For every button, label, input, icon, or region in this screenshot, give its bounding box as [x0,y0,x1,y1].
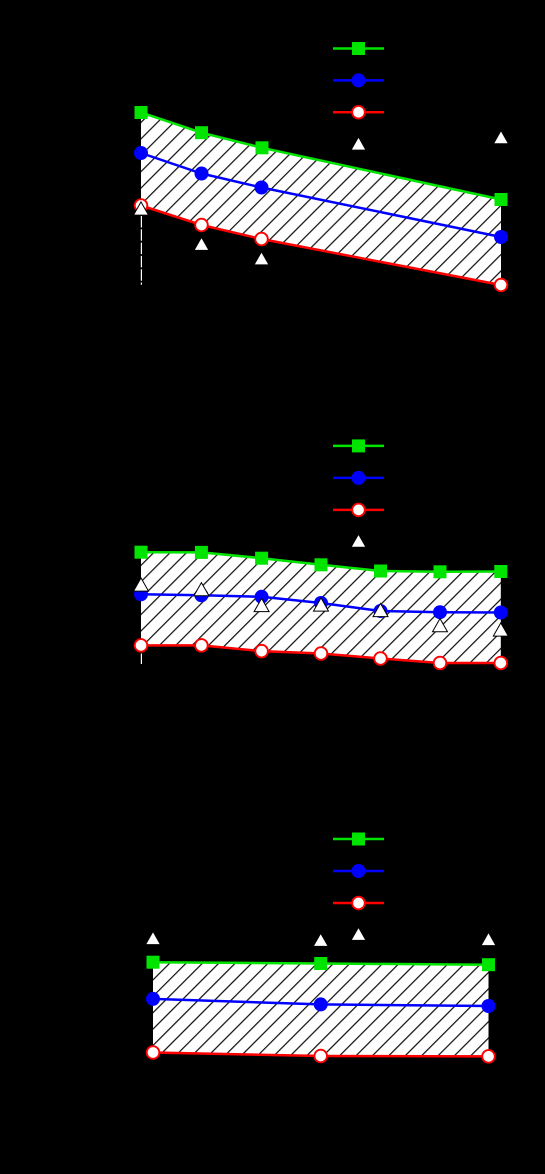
chart 1 blue circle markers [134,146,508,244]
chart 3 legend entry triangle [351,927,366,940]
chart 3 legend entry red [333,897,384,910]
chart 3 blue line [153,999,489,1006]
chart 1 legend entry green [333,42,384,55]
chart 1 white triangle markers [134,131,509,265]
chart 3 blue circle markers [146,992,496,1013]
chart 1 hatched band [141,113,501,286]
chart 1 legend entry triangle [351,137,366,150]
chart 2 hatched band [141,552,501,663]
chart 3 red open circle markers [147,1046,495,1063]
chart 2 legend entry blue [333,471,384,485]
chart 3 red line [153,1053,489,1057]
chart 3 white triangle markers [146,931,497,946]
chart 2 blue line [141,594,501,612]
chart 2 legend entry triangle [351,534,366,547]
chart 2 blue circle markers [134,587,508,619]
chart 1 green square markers [135,106,508,206]
chart 2 red line [141,645,501,663]
chart 2 green square markers [135,546,508,579]
chart 3 hatched band [153,962,489,1056]
chart 3 legend entry blue [333,864,384,878]
chart 1 white dashed lower-limit line [140,216,142,285]
chart 1 blue line [141,153,501,237]
chart 1 green line [141,112,501,199]
chart 2 green line [141,552,501,572]
chart 1 red open circle markers [135,199,508,291]
chart 1 legend entry red [333,106,384,119]
chart 1 red line [141,206,501,286]
chart 2 short white line under first red point [140,654,142,665]
chart 3 green square markers [147,956,496,972]
chart 2 red open circle markers [135,639,507,669]
chart 2 legend entry green [333,439,384,452]
chart 2 open triangle markers [134,578,509,636]
chart 2 legend entry red [333,504,384,517]
chart 1 legend entry blue [333,73,384,87]
chart 3 green line [153,962,489,965]
chart 3 legend entry green [333,833,384,846]
